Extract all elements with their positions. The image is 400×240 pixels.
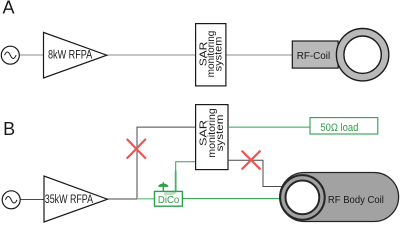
green wire DiCo to body coil [183,198,285,200]
SAR monitoring system box (part A) [196,24,226,86]
wire source to amplifier A [20,54,44,56]
green wire junction to DiCo [137,198,155,200]
wire junction up to SAR box [137,127,196,199]
SAR monitoring system box (part B) [196,105,228,170]
RF body coil end ring [280,175,325,220]
wire SAR box to RF-Coil [226,54,293,56]
AC source V1 (part A) [1,46,19,64]
svg-text:DiCo: DiCo [158,195,180,206]
svg-text:system: system [214,114,226,151]
green wire DiCo up to SAR box [176,162,196,191]
red X break mark 1 [127,140,145,159]
amplifier 35kW RFPA (part B) [44,176,108,222]
red X break mark 2 [242,151,259,169]
wire amplifier A to SAR box [107,54,196,56]
svg-text:35kW RFPA: 35kW RFPA [45,192,94,206]
50 ohm load box [310,118,378,135]
wire amplifier B to junction [108,198,138,200]
wire source to amplifier B [20,199,44,201]
svg-text:50Ω load: 50Ω load [320,122,358,134]
svg-text:RF Body Coil: RF Body Coil [328,195,384,206]
svg-text:A: A [3,0,15,18]
DiCo pickup probe symbol [158,182,168,192]
light green pickup lead [164,171,176,194]
AC source V2 (part B) [2,191,20,209]
svg-text:RF-Coil: RF-Coil [297,51,331,62]
RF-Coil box [292,41,338,68]
RF coil ring (part A) [336,29,388,81]
svg-text:system: system [214,37,225,72]
wire SAR box to body coil [228,160,284,186]
RF body coil cylinder [280,173,399,222]
amplifier 8kW RFPA (part A) [44,32,107,78]
svg-text:B: B [3,119,15,139]
green wire SAR box to 50ohm load [228,126,310,128]
DiCo box [155,191,183,206]
svg-text:8kW RFPA: 8kW RFPA [48,48,93,62]
